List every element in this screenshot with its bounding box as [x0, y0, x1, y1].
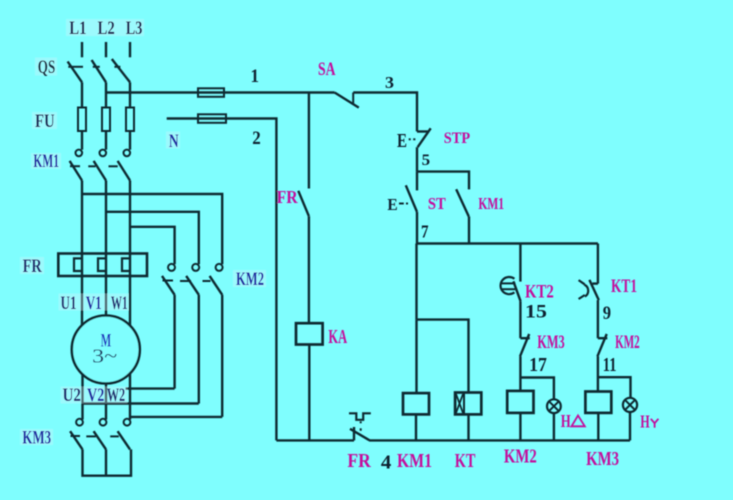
svg-text:N: N: [169, 131, 179, 152]
wire line 2 N with fuse: [167, 119, 277, 441]
contactor KM2 linkage dashes: [163, 280, 174, 282]
svg-text:KM2: KM2: [504, 446, 537, 468]
svg-text:H: H: [561, 411, 571, 431]
wire to T split KM3 coil / lamp: [597, 356, 599, 391]
contactor KM2 main contact 2: [192, 264, 199, 271]
wire phase L1 fuse to KM1: [81, 131, 83, 150]
wire tap phase3 to KM2 contact 1: [130, 227, 175, 264]
lamp H-wye: [623, 398, 637, 412]
wire KT2 to KM3 NC: [519, 301, 521, 338]
wire jog to KM1 coil: [415, 320, 417, 394]
contactor KM2 main contact 3: [216, 264, 223, 271]
wire phase L2 fuse to KM1: [105, 131, 107, 150]
motor M circle: [72, 316, 140, 384]
svg-text:L2: L2: [98, 18, 115, 39]
button ST normally-open: [416, 172, 418, 191]
svg-text:4: 4: [381, 452, 391, 474]
wire branch FR-KA from line 1: [308, 93, 310, 189]
wire phase L3 QS to fuse: [129, 82, 131, 107]
svg-text:KM1: KM1: [397, 450, 432, 472]
svg-text:W1: W1: [111, 293, 128, 314]
svg-text:KM3: KM3: [22, 428, 51, 449]
wire motor U2 lead: [81, 365, 83, 420]
fuse FU phase 1: [78, 108, 86, 132]
contact KM3 normally-closed: [520, 337, 529, 339]
coil KM1: [403, 393, 429, 414]
switch QS linkage dashes: [68, 66, 83, 68]
svg-text:KM1: KM1: [33, 151, 59, 172]
wire STP to node 5: [416, 147, 418, 171]
bottom rail left segment: [276, 439, 354, 441]
lamp H-delta: [547, 399, 561, 413]
bottom rail right segment: [369, 439, 630, 441]
wire phase L1 vertical KM1 to motor: [81, 181, 83, 341]
svg-text:FR: FR: [277, 187, 299, 207]
wire node7 down to jog: [415, 244, 417, 320]
svg-text:11: 11: [603, 354, 617, 376]
wire KM2 contact 3 down to delta line C: [221, 295, 223, 417]
contact KT1 delayed-opening: [592, 282, 598, 284]
svg-text:H: H: [640, 412, 650, 432]
contact FR normally-open signal: [298, 191, 309, 216]
coil KM3: [585, 392, 611, 413]
wire tap phase1 to KM2 contact 3: [82, 194, 222, 264]
wire phase L3 fuse to KM1: [129, 131, 131, 150]
wire line 1 right segment to node 3: [353, 93, 417, 132]
contact FR thermal normally-closed: [349, 413, 371, 420]
label wye Y of H-wye: [651, 419, 659, 423]
svg-text:E: E: [397, 130, 407, 152]
contactor KM3 contact 1: [76, 419, 83, 426]
wire KT1 to KM2 NC: [597, 300, 599, 338]
wire phase L1 QS to fuse: [81, 82, 83, 107]
coil KA: [296, 323, 323, 344]
contactor KM1 main contact 3: [124, 150, 131, 157]
thermal relay FR heater element 2: [98, 258, 106, 271]
switch QS blade 2: [92, 60, 106, 82]
switch QS blade 3: [112, 59, 130, 82]
contactor KM3 contact 3: [124, 419, 131, 426]
node 5 branch: [417, 172, 469, 190]
svg-text:L3: L3: [126, 18, 143, 39]
wire to T split KM2 coil / lamp: [519, 356, 521, 391]
svg-text:FU: FU: [35, 111, 55, 132]
svg-text:3: 3: [385, 73, 394, 92]
wire line 1 left segment: [106, 91, 335, 93]
fuse line 2: [198, 114, 226, 123]
switch SA blade: [335, 93, 359, 108]
svg-text:2: 2: [252, 128, 261, 149]
wire phase L2 vertical KM1 to motor: [105, 181, 107, 331]
coil KT time relay: [455, 393, 481, 415]
button STP normally-closed: [417, 130, 428, 132]
svg-text:7: 7: [421, 222, 429, 242]
svg-text:U1: U1: [61, 293, 77, 314]
fuse FU phase 2: [102, 108, 110, 132]
svg-text:STP: STP: [444, 130, 471, 147]
node L2 terminal stub: [105, 42, 107, 57]
thermal relay FR heater element 1: [74, 258, 82, 271]
fuse FU phase 3: [126, 108, 134, 132]
svg-text:KA: KA: [328, 326, 347, 348]
wire motor W2 lead: [129, 365, 131, 420]
svg-text:W2: W2: [107, 385, 126, 406]
label boxes: [20, 19, 266, 445]
wire KM2 contact 2 down to delta line B: [198, 295, 200, 404]
contactor KM1 main contact 2: [100, 150, 107, 157]
contact KT2 delayed-closing: [501, 277, 515, 294]
contactor KM1 main contact 1: [76, 150, 83, 157]
wire delta line C (W2 to KM2-3): [130, 416, 222, 418]
wire KA coil to bottom rail: [308, 345, 310, 441]
svg-text:3~: 3~: [92, 346, 117, 368]
svg-text:15: 15: [525, 302, 547, 323]
contactor KM2 main contact 1: [168, 264, 175, 271]
svg-text:U2: U2: [63, 385, 82, 406]
svg-text:V1: V1: [86, 293, 102, 314]
node L1 terminal stub: [81, 42, 83, 57]
svg-text:KM3: KM3: [586, 448, 619, 470]
svg-text:9: 9: [603, 303, 611, 324]
wire phase L3 vertical KM1 to motor: [129, 181, 131, 341]
wire ST to node 7: [416, 212, 418, 244]
wire KT2 branch from node7: [519, 244, 521, 282]
svg-text:FR: FR: [347, 450, 371, 472]
svg-text:KM1: KM1: [478, 194, 504, 213]
thermal relay FR box: [58, 254, 147, 277]
svg-text:KM2: KM2: [236, 269, 264, 290]
contactor KM1 linkage dashes: [70, 165, 80, 167]
svg-text:FR: FR: [23, 256, 42, 277]
wire delta line A (V2 to KM2-1): [126, 387, 175, 389]
svg-text:ST: ST: [428, 194, 446, 213]
wire KM3 star point bar: [83, 449, 132, 475]
contactor KM3 contact 2: [100, 419, 107, 426]
label delta triangle of H-delta: [572, 416, 659, 428]
wire jog to KT coil branch: [417, 320, 469, 393]
switch QS blade 1: [68, 62, 82, 83]
svg-text:1: 1: [251, 66, 260, 87]
contact KM2 normally-closed: [598, 337, 607, 339]
svg-text:KT2: KT2: [525, 281, 554, 302]
node 7 rail: [417, 242, 598, 244]
contact KM1 auxiliary self-hold: [456, 189, 469, 216]
svg-text:QS: QS: [38, 57, 55, 78]
svg-text:E: E: [387, 195, 397, 214]
wire motor V2 lead: [105, 370, 107, 420]
switch SA tick: [352, 93, 354, 104]
wire delta line B (U2 to KM2-2): [83, 402, 199, 404]
svg-text:L1: L1: [69, 18, 86, 39]
node L3 terminal stub: [129, 42, 131, 57]
wire tap phase2 to KM2 contact 2: [106, 212, 199, 264]
svg-text:KT1: KT1: [611, 276, 637, 297]
svg-text:5: 5: [422, 152, 431, 169]
svg-text:SA: SA: [318, 59, 336, 80]
svg-text:KM3: KM3: [537, 332, 564, 353]
fuse line 1: [198, 88, 224, 97]
svg-text:17: 17: [529, 354, 547, 376]
wire FR contact to KA coil: [308, 216, 310, 323]
wire phase L2 QS to fuse: [105, 82, 107, 107]
contactor KM3 linkage dashes: [71, 435, 81, 437]
svg-text:KM2: KM2: [615, 332, 640, 353]
wire KT1 branch from node7: [597, 244, 599, 284]
coil KM2: [507, 391, 533, 413]
wire KM2 contact 1 down to delta line A: [173, 295, 175, 389]
thermal relay FR heater element 3: [122, 258, 130, 271]
svg-text:KT: KT: [455, 450, 476, 472]
svg-text:V2: V2: [87, 385, 104, 406]
